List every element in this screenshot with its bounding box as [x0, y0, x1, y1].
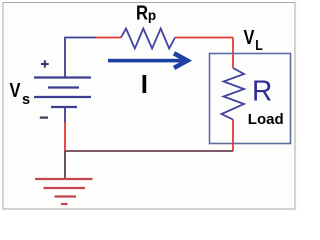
svg-text:I: I [141, 69, 148, 99]
wire load bottom (red) [232, 120, 234, 152]
plus terminal mark [41, 60, 49, 67]
wire [64, 122, 66, 151]
battery Vs [34, 78, 91, 108]
label Vs [10, 79, 31, 108]
current arrow I [108, 53, 187, 68]
svg-text:R: R [136, 1, 149, 24]
svg-text:s: s [22, 92, 30, 108]
svg-text:V: V [244, 25, 256, 48]
minus terminal mark [40, 116, 48, 118]
wire junction to ground (dark) [64, 151, 66, 179]
load box [210, 54, 291, 144]
wire VL corner down into load box (red) [232, 38, 234, 69]
wire resistor to VL corner (red) [175, 37, 233, 39]
svg-text:Load: Load [248, 111, 284, 128]
wire bottom return (dark) [65, 150, 233, 152]
svg-text:R: R [252, 75, 272, 107]
resistor R (load) [222, 68, 245, 120]
label VL [244, 25, 263, 53]
svg-text:p: p [148, 8, 156, 23]
wire battery top to corner (blue) [65, 38, 97, 78]
wire top left (red) [96, 37, 121, 39]
label Rp [136, 1, 156, 24]
svg-text:V: V [10, 79, 22, 102]
resistor Rp [121, 29, 175, 49]
svg-text:L: L [255, 37, 263, 53]
wire battery bottom (blue then red) [64, 107, 66, 123]
ground [35, 179, 93, 204]
